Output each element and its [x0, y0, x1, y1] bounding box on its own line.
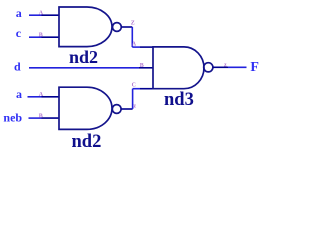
pin stub Z of U1 — [121, 26, 132, 28]
pin stub B of U1 — [42, 36, 60, 38]
svg-text:B: B — [39, 113, 43, 119]
svg-text:nd3: nd3 — [164, 90, 194, 110]
pin stub Z of U3 — [213, 66, 228, 68]
NAND gate U1 nd2 body — [59, 7, 112, 47]
svg-text:d: d — [14, 60, 21, 74]
NAND gate U3 output bubble — [204, 63, 213, 72]
svg-text:C: C — [132, 83, 136, 89]
pin stub A of U2 — [42, 96, 60, 98]
wire net c to U1 — [29, 36, 42, 38]
pin stub C of U3 — [140, 88, 153, 90]
NAND gate U2 output bubble — [112, 105, 121, 114]
svg-text:a: a — [16, 6, 22, 20]
pin stub A of U1 — [42, 14, 60, 16]
svg-text:nd2: nd2 — [69, 47, 98, 67]
svg-text:z: z — [133, 104, 136, 110]
svg-text:A: A — [39, 11, 44, 17]
wire net d to U3 — [29, 67, 139, 69]
wire net U1.out vertical riser down — [131, 27, 133, 47]
svg-text:Z: Z — [131, 21, 135, 27]
wire net U2.out vertical riser up — [132, 89, 134, 109]
pin stub A of U3 — [140, 46, 153, 48]
wire net U2.out horizontal into U3.C — [133, 88, 140, 90]
NAND gate U1 output bubble — [113, 23, 122, 32]
pin stub B of U2 — [42, 117, 60, 119]
wire net F — [228, 66, 247, 68]
svg-text:B: B — [140, 63, 144, 69]
svg-text:A: A — [132, 42, 137, 48]
svg-text:a: a — [16, 87, 22, 101]
svg-text:A: A — [39, 92, 44, 98]
NAND gate U2 nd2 body — [59, 87, 112, 129]
svg-text:c: c — [16, 26, 22, 40]
wire net neb to U2 — [29, 117, 42, 119]
pin stub Z of U2 — [121, 108, 132, 110]
svg-text:z: z — [224, 62, 227, 68]
wire net U1.out horizontal into U3.A — [132, 46, 140, 48]
wire net a to U2 — [28, 96, 42, 98]
svg-text:nd2: nd2 — [72, 132, 102, 148]
svg-text:neb: neb — [3, 111, 22, 125]
wire net a to U1 — [29, 14, 42, 16]
svg-text:B: B — [39, 32, 43, 38]
svg-text:F: F — [250, 60, 259, 75]
pin stub B of U3 — [139, 67, 153, 69]
NAND gate U3 nd3 body — [153, 47, 204, 89]
